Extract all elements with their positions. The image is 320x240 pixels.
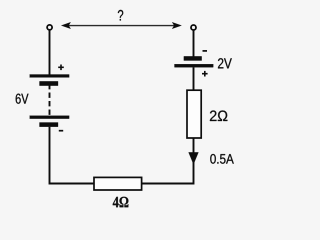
label 0.5A [210,154,234,164]
wire: left terminal to battery [49,30,51,75]
label ? [118,10,123,21]
battery B1 6V, cell 1 negative plate [40,81,59,85]
wire: 2V battery to resistor R1 [193,67,195,90]
current arrow 0.5A (downward) [189,152,199,164]
wire: right terminal to 2V battery [193,30,195,56]
label 6V [16,94,29,104]
label 4ohm [113,197,129,207]
minus sign cell 2 [59,130,63,132]
battery B2 2V, negative plate [184,56,202,60]
label 2V [218,58,232,68]
double-headed arrow between terminals [61,22,181,28]
label 2ohm [210,111,227,122]
terminal (open circle) left [47,25,52,30]
plus sign B2 [202,71,208,77]
battery B1 6V, cell 1 positive plate [30,75,69,78]
resistor R2 4ohm [94,177,142,190]
battery B1 6V, cell 2 negative plate [40,123,59,127]
resistor R1 2ohm [187,90,201,138]
minus sign B2 [203,50,208,52]
wire: dashed between cells [49,84,51,116]
wire: battery to bottom-left corner [50,127,95,184]
wire: resistor R2 to bottom-right corner [142,139,194,184]
battery B1 6V, cell 2 positive plate [30,116,69,119]
terminal (open circle) right [191,25,196,30]
battery B2 2V, positive plate [175,64,214,67]
plus sign cell 1 [58,65,64,71]
